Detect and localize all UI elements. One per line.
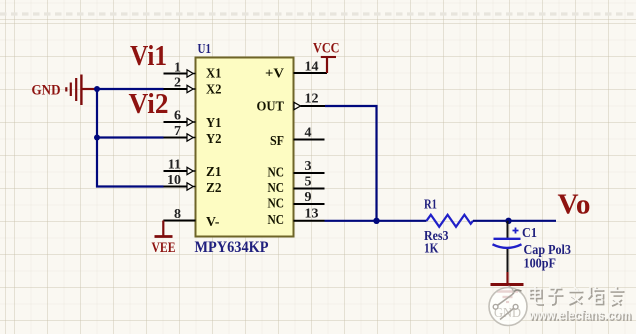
svg-text:10: 10	[167, 173, 181, 188]
pin 8 V-	[163, 207, 220, 230]
svg-text:7: 7	[174, 124, 181, 139]
wire GND to X2 (pin 2)	[95, 88, 164, 90]
capacitor C1 plus sign	[513, 228, 519, 234]
watermark logo wire tail	[500, 308, 514, 319]
svg-text:X1: X1	[206, 67, 222, 82]
wire vertical GND bus	[97, 89, 164, 187]
watermark logo flag	[509, 286, 515, 294]
resistor R1 zigzag	[427, 215, 474, 227]
watermark logo circle	[489, 288, 527, 326]
svg-text:12: 12	[305, 92, 319, 107]
pin 5 NC	[268, 175, 325, 197]
pin 11 Z1	[164, 158, 222, 181]
svg-text:SF: SF	[270, 134, 284, 149]
wire R1 to C1 node	[473, 220, 509, 222]
svg-text:Vi1: Vi1	[130, 40, 167, 72]
svg-text:MPY634KP: MPY634KP	[195, 239, 269, 256]
svg-text:NC: NC	[268, 181, 285, 196]
wire branch to Y2 (pin 7)	[97, 136, 164, 138]
svg-text:VCC: VCC	[313, 41, 340, 57]
svg-text:U1: U1	[198, 42, 212, 57]
svg-text:VEE: VEE	[152, 240, 176, 256]
pin 14 +V	[265, 60, 327, 82]
svg-text:+V: +V	[265, 67, 284, 82]
svg-text:Z2: Z2	[206, 181, 222, 196]
svg-text:NC: NC	[268, 197, 285, 212]
svg-text:X2: X2	[206, 83, 222, 98]
svg-text:Z1: Z1	[206, 165, 222, 180]
power port VCC	[313, 41, 340, 74]
svg-text:1K: 1K	[424, 240, 439, 255]
pin 2 X2	[164, 76, 222, 98]
power ground below C1	[491, 272, 524, 302]
pin 1 X1	[164, 61, 222, 82]
svg-text:Y1: Y1	[206, 116, 222, 131]
svg-text:9: 9	[305, 190, 312, 205]
top sheet border dashed line	[0, 12, 636, 15]
wire pin 13 to node	[325, 220, 377, 222]
wire node to R1	[377, 220, 427, 222]
svg-text:3: 3	[305, 159, 312, 174]
svg-text:NC: NC	[268, 166, 285, 181]
watermark text 电子发烧友 (drawn strokes)	[527, 285, 627, 309]
capacitor C1 top plate	[494, 238, 521, 240]
watermark logo hook	[513, 290, 522, 294]
pin 10 Z2	[164, 173, 222, 196]
svg-text:NC: NC	[268, 213, 285, 228]
capacitor C1 lead top	[507, 221, 509, 238]
svg-text:11: 11	[168, 158, 181, 173]
pin 13 NC	[268, 207, 325, 229]
svg-text:1: 1	[174, 61, 181, 76]
op-amp U1 (MPY634KP multiplier body)	[196, 58, 294, 237]
node junction OUT/13	[373, 218, 379, 224]
pin 9 NC	[268, 190, 325, 212]
node junction at C1	[505, 218, 511, 224]
svg-text:R1: R1	[424, 197, 437, 212]
watermark logo terminal 1	[493, 304, 498, 309]
svg-text:14: 14	[305, 60, 319, 75]
svg-text:C1: C1	[522, 225, 537, 240]
svg-text:4: 4	[305, 126, 312, 141]
svg-text:13: 13	[305, 207, 319, 222]
watermark text www.elecfans.com	[527, 307, 636, 325]
ground (earth) power port at left	[66, 75, 95, 106]
pin 3 NC	[268, 159, 325, 181]
capacitor C1 lead bottom	[507, 249, 509, 272]
svg-text:Y2: Y2	[206, 132, 222, 147]
svg-text:5: 5	[305, 175, 312, 190]
watermark logo lever	[498, 294, 514, 305]
svg-text:100pF: 100pF	[524, 255, 557, 270]
node junction at GND wire	[94, 86, 100, 92]
svg-text:GND: GND	[32, 83, 61, 99]
svg-text:8: 8	[174, 207, 181, 222]
svg-text:OUT: OUT	[257, 100, 285, 115]
pin 12 OUT	[257, 92, 326, 115]
svg-text:V-: V-	[206, 215, 220, 230]
svg-text:www.elecfans.com: www.elecfans.com	[528, 307, 631, 323]
pin 7 Y2	[164, 124, 222, 147]
pin 6 Y1	[164, 109, 222, 132]
svg-text:2: 2	[174, 76, 181, 91]
power port VEE	[152, 221, 176, 257]
svg-text:6: 6	[174, 109, 181, 124]
svg-text:Vi2: Vi2	[129, 88, 169, 120]
svg-text:Vo: Vo	[558, 189, 591, 221]
wire node to Vo	[509, 220, 557, 222]
pin 4 SF	[270, 126, 325, 150]
node junction at Y2 branch	[94, 135, 100, 141]
watermark logo terminal 2	[513, 304, 518, 309]
wire OUT (pin 12) to node	[325, 106, 377, 221]
capacitor C1 curved plate	[493, 244, 522, 248]
